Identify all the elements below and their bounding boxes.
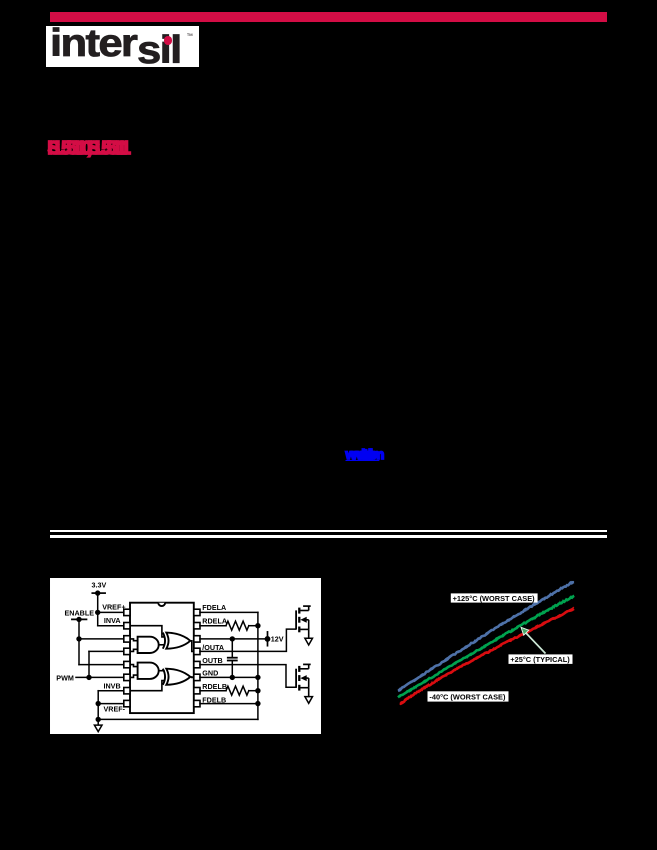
wire PWM vertical xyxy=(88,651,90,677)
capacitor C1 bottom plate xyxy=(227,659,236,661)
svg-text:/OUTA: /OUTA xyxy=(202,643,224,652)
label +25C with arrow xyxy=(509,627,573,664)
svg-text:PWM: PWM xyxy=(56,673,74,682)
-40C curve (red) xyxy=(400,609,574,704)
node VREF- junction xyxy=(95,700,100,705)
node RDELB/bus junction xyxy=(255,688,260,693)
wire capacitor to GND row xyxy=(231,661,233,677)
wire VREF- vertical rail xyxy=(97,690,99,724)
node RDELA/bus junction xyxy=(255,623,260,628)
wire pin6 jog to AND B xyxy=(130,675,138,677)
wire VDD row to 12V node xyxy=(199,637,266,639)
pin 5 xyxy=(123,661,129,667)
wire R2 to bus xyxy=(248,689,257,691)
XOR gate A body xyxy=(166,632,190,648)
node capacitor bottom junction xyxy=(229,674,234,679)
XOR gate A input arc xyxy=(162,632,164,648)
wire INVA to XOR A input xyxy=(130,625,164,636)
wire OUTB to Q2 gate xyxy=(199,664,294,687)
wire RDELB pin stub xyxy=(199,689,225,691)
svg-text:3.3V: 3.3V xyxy=(91,580,106,589)
wire pin3 jog to AND A xyxy=(130,638,138,640)
wire INVB to XOR B input xyxy=(130,680,164,690)
wire to VREF+ pin xyxy=(97,611,123,613)
wire bottom return to bus xyxy=(98,718,258,720)
resistor R1 (RDELA) xyxy=(225,621,248,630)
3.3V supply terminal bar xyxy=(92,592,105,594)
svg-text:+125°C (WORST CASE): +125°C (WORST CASE) xyxy=(453,594,536,603)
pin 2 INVA xyxy=(123,622,129,628)
wire GND row to bus xyxy=(199,676,257,678)
label -40C xyxy=(428,691,509,701)
ground (left) xyxy=(94,725,102,731)
svg-text:+25°C (TYPICAL): +25°C (TYPICAL) xyxy=(510,655,570,664)
node FDELB/bus junction xyxy=(255,700,260,705)
svg-text:INVB: INVB xyxy=(103,681,120,690)
wire ENABLE to pin 5 xyxy=(79,663,124,665)
transistor Q1 (upper MOSFET) xyxy=(296,606,311,638)
trademark xyxy=(187,33,194,40)
node 12V dot xyxy=(264,636,270,642)
label +125C xyxy=(451,593,538,602)
AND gate B xyxy=(137,662,158,678)
intersil logo white box xyxy=(46,26,199,67)
wire 3.3V rail down to INVA row xyxy=(96,593,98,626)
pin 1 VREF+ xyxy=(123,609,129,615)
XOR gate B input arc xyxy=(162,668,164,684)
AND gate A xyxy=(137,636,158,652)
svg-text:RDELB: RDELB xyxy=(202,682,227,691)
pin 3 INA xyxy=(123,635,129,641)
wire PWM to pin 6 xyxy=(76,676,124,678)
+25C curve (green) xyxy=(398,596,574,698)
wire XOR A output to /OUTA xyxy=(190,640,193,651)
pin 8 VREF- xyxy=(123,700,129,706)
wire INVB to left rail xyxy=(98,689,124,691)
transistor Q2 (lower MOSFET) xyxy=(296,664,311,696)
pin 4 INB xyxy=(123,648,129,654)
ground (Q2 source) xyxy=(304,696,312,703)
node bottom-return junction xyxy=(95,716,100,721)
wire R1 to bus xyxy=(248,624,257,626)
ENABLE terminal bar xyxy=(71,618,86,620)
intersil logo text "sil" xyxy=(137,31,181,70)
wire FDELA to bus xyxy=(199,611,257,613)
wire to VREF- pin xyxy=(98,702,124,704)
wire ENABLE vertical xyxy=(78,619,80,664)
node ENABLE dot xyxy=(76,616,81,621)
wire right bus vertical xyxy=(256,612,258,719)
svg-text:RDELA: RDELA xyxy=(202,616,227,625)
XOR gate B body xyxy=(166,668,190,684)
node 3.3V dot xyxy=(95,590,100,595)
svg-text:FDELB: FDELB xyxy=(202,695,226,704)
pin 6 xyxy=(123,674,129,680)
svg-text:GND: GND xyxy=(202,668,218,677)
intersil logo text "inter" xyxy=(50,24,136,63)
resistor R2 (RDELB) xyxy=(225,686,248,695)
blue link (overlapping glyphs) xyxy=(346,446,380,462)
wire pin5 jog to AND B xyxy=(130,664,138,666)
double horizontal rule xyxy=(50,530,608,532)
ground (Q1 source) xyxy=(304,638,312,645)
node VREF+ junction xyxy=(95,609,100,614)
pin 9 FDELB xyxy=(193,700,199,706)
red part-number title (overlapping glyphs) xyxy=(48,138,127,159)
svg-text:FDELA: FDELA xyxy=(202,602,226,611)
+125C curve (blue) xyxy=(398,582,574,691)
svg-text:VREF+: VREF+ xyxy=(102,602,125,611)
wire PWM to pin 4 xyxy=(89,650,124,652)
pin 13 /OUTA xyxy=(193,648,199,654)
op-amp U1 (driver IC body) xyxy=(130,602,194,712)
svg-text:VREF-: VREF- xyxy=(103,704,125,713)
pin 12 OUTB xyxy=(193,661,199,667)
wire XOR B output to OUTB row xyxy=(190,675,193,678)
svg-text:-40°C (WORST CASE): -40°C (WORST CASE) xyxy=(429,692,506,701)
intersil red dot xyxy=(164,36,173,45)
node capacitor top junction xyxy=(229,636,234,641)
node GND/bus junction xyxy=(255,674,260,679)
pin 7 INVB xyxy=(123,687,129,693)
wire AND A output xyxy=(158,643,164,645)
pin 14 VDD xyxy=(193,635,199,641)
wire pin4 jog to AND A xyxy=(130,649,138,651)
wire VDD to capacitor xyxy=(231,638,233,656)
12V supply tick xyxy=(266,631,268,645)
wire FDELB to bus xyxy=(199,702,257,704)
wire AND B output xyxy=(158,669,164,671)
top red bar xyxy=(50,12,607,21)
wire RDELA pin stub xyxy=(199,624,225,626)
pin 16 FDELA xyxy=(193,609,199,615)
pin 11 GND xyxy=(193,674,199,680)
node ENABLE/pin3 junction xyxy=(76,636,81,641)
node PWM junction xyxy=(86,674,91,679)
pin 10 RDELB xyxy=(193,687,199,693)
wire ENABLE to pin 3 xyxy=(79,637,124,639)
wire to INVA pin xyxy=(97,624,123,626)
capacitor C1 top plate xyxy=(227,656,236,658)
svg-text:INVA: INVA xyxy=(103,616,120,625)
pin 15 RDELA xyxy=(193,622,199,628)
svg-text:12V: 12V xyxy=(270,634,283,643)
wire /OUTA to Q1 gate xyxy=(199,629,294,651)
svg-text:OUTB: OUTB xyxy=(202,655,222,664)
svg-text:ENABLE: ENABLE xyxy=(64,608,94,617)
